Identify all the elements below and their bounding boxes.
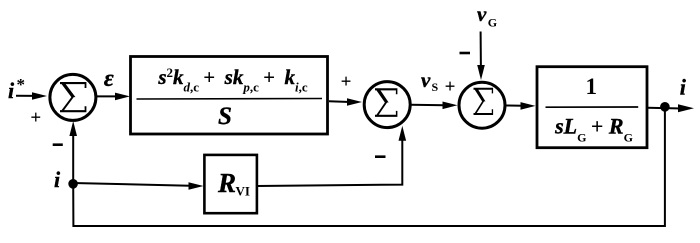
svg-text:v: v bbox=[421, 68, 431, 92]
svg-text:S: S bbox=[218, 103, 232, 130]
wire block G2 output to edge with node bbox=[648, 104, 695, 112]
summing junction U2 bbox=[364, 82, 410, 128]
svg-text:*: * bbox=[17, 75, 26, 94]
wire block G1 to summer U2 bbox=[329, 98, 362, 106]
block G2 plant 1/(sLG+RG) bbox=[537, 67, 647, 148]
wire feedback outer loop bbox=[73, 107, 665, 226]
wire block RVI up into summer U2 bbox=[258, 126, 407, 186]
label minus at summer U1 feedback bbox=[53, 143, 63, 146]
label minus at summer U2 feedback bbox=[375, 155, 386, 158]
svg-text:+: + bbox=[341, 71, 352, 92]
label vG input bbox=[477, 2, 497, 30]
wire summer U1 to block G1 bbox=[96, 93, 130, 101]
wire node to block RVI bbox=[73, 182, 204, 190]
block G1 PID transfer function bbox=[131, 57, 328, 135]
svg-text:+: + bbox=[445, 76, 456, 97]
label vS bbox=[421, 68, 439, 94]
wire summer U3 to block G2 bbox=[505, 102, 535, 110]
node junction dot at output bbox=[660, 102, 670, 112]
svg-text:v: v bbox=[477, 2, 487, 26]
node i* input label bbox=[8, 75, 25, 103]
svg-text:i: i bbox=[54, 167, 61, 192]
wire feedback up into summer U1 bbox=[69, 121, 77, 183]
wire input arrow into summer U1 bbox=[16, 92, 47, 100]
wire summer U2 to summer U3 bbox=[411, 102, 458, 110]
wire vG down into summer U3 bbox=[477, 32, 485, 81]
svg-text:i: i bbox=[8, 78, 15, 103]
node junction dot i feedback bbox=[68, 179, 78, 189]
svg-text:i: i bbox=[680, 75, 687, 100]
svg-text:VI: VI bbox=[236, 184, 250, 199]
svg-text:S: S bbox=[432, 80, 439, 94]
summing junction U1 bbox=[50, 74, 96, 120]
svg-text:ε: ε bbox=[104, 66, 114, 92]
svg-text:1: 1 bbox=[586, 74, 598, 99]
label minus at vG branch bbox=[460, 52, 471, 55]
svg-text:R: R bbox=[217, 168, 236, 198]
svg-text:G: G bbox=[488, 16, 497, 30]
block RVI bbox=[204, 155, 257, 213]
svg-text:+: + bbox=[30, 107, 41, 128]
summing junction U3 bbox=[459, 82, 505, 128]
